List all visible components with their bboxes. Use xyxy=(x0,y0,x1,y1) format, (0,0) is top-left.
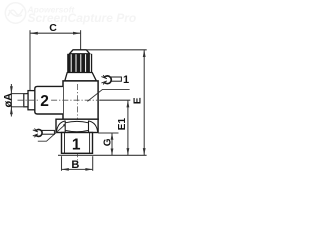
dimension B line xyxy=(62,168,93,170)
dimension oA extension bottom xyxy=(11,106,26,108)
dimension oA arrow top xyxy=(10,86,13,93)
dimension B arrow left xyxy=(62,168,69,171)
svg-text:øA: øA xyxy=(3,93,15,108)
dimension E line xyxy=(143,50,145,156)
port 1 threaded stud xyxy=(62,133,93,154)
watermark logo xyxy=(5,3,25,23)
dimension B extension left xyxy=(61,156,63,171)
dimension G extension line xyxy=(98,132,118,134)
port 2 end cap xyxy=(24,94,28,107)
svg-text:G: G xyxy=(102,138,113,146)
dimension C arrow left xyxy=(30,32,38,35)
dimension G arrow top xyxy=(111,133,114,140)
wrench symbol top xyxy=(101,75,121,84)
dimension B arrow right xyxy=(85,168,92,171)
vertical centerline xyxy=(77,84,79,161)
hex nut xyxy=(56,119,98,132)
dimension oA extension top xyxy=(11,93,26,95)
port 2 tube xyxy=(35,86,63,114)
dimension E1 arrow top xyxy=(127,100,130,107)
wrench 2 leader dot xyxy=(63,124,65,126)
label 2 background xyxy=(40,95,50,107)
dimension E1 extension line xyxy=(100,99,131,101)
dimension C line xyxy=(30,32,81,34)
wrench symbol bottom xyxy=(33,129,55,138)
dimension E1 line xyxy=(127,100,129,155)
svg-text:E1: E1 xyxy=(117,118,128,131)
bottom extension line xyxy=(58,154,147,156)
horizontal centerline (port 2 axis) xyxy=(18,99,101,101)
wrench 1 leader line xyxy=(87,89,129,101)
valve body xyxy=(63,81,98,119)
svg-text:1: 1 xyxy=(123,74,129,86)
dimension E arrow top xyxy=(143,50,146,57)
svg-text:2: 2 xyxy=(40,93,49,110)
dimension C arrow right xyxy=(73,32,81,35)
dimension oA arrow bottom xyxy=(10,107,13,114)
dimension E1 arrow bottom xyxy=(127,148,130,155)
knob cap xyxy=(69,50,89,54)
svg-text:E: E xyxy=(133,97,144,104)
dimension G arrow bottom xyxy=(111,149,114,156)
dimension C extension line right (knob axis above cap) xyxy=(80,30,82,50)
wrench 2 leader line xyxy=(38,125,65,141)
svg-text:B: B xyxy=(71,159,79,171)
dimension E arrow bottom xyxy=(143,148,146,155)
knob skirt xyxy=(65,73,97,81)
port 2 collet ring xyxy=(28,91,35,110)
dimension C extension line left xyxy=(29,30,31,92)
dimension B extension right xyxy=(92,156,94,171)
svg-text:1: 1 xyxy=(72,137,81,154)
knob knurl xyxy=(67,54,92,73)
thread line left xyxy=(64,133,66,154)
svg-text:ScreenCapture Pro: ScreenCapture Pro xyxy=(28,11,137,25)
dimension E extension line xyxy=(86,49,146,51)
dimension G line xyxy=(111,133,113,155)
thread line right xyxy=(89,133,91,154)
svg-text:C: C xyxy=(49,22,57,34)
dimension oA line xyxy=(10,84,12,117)
